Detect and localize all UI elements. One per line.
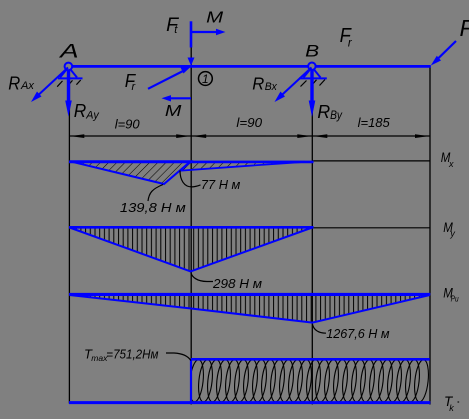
- support B pin triangle: [299, 70, 327, 79]
- svg-text:1: 1: [202, 72, 209, 86]
- svg-text:R: R: [252, 74, 264, 94]
- torque box top edge: [191, 358, 430, 361]
- svg-text:Ax: Ax: [20, 80, 35, 92]
- torque loops fill: [188, 359, 431, 403]
- svg-text:=751,2Нм: =751,2Нм: [106, 346, 158, 361]
- reaction RAx arrow: [31, 68, 68, 103]
- support B hatch ticks: [301, 80, 326, 87]
- Mres baseline (blue): [69, 293, 430, 296]
- Mx diagram right triangle, hatched: [180, 162, 305, 171]
- dot after Tk: [457, 401, 459, 403]
- svg-text:R: R: [317, 101, 330, 122]
- vertical section line at support B: [311, 79, 313, 405]
- My axis (black part right of B): [312, 227, 430, 229]
- svg-text:1267,6 Н м: 1267,6 Н м: [326, 326, 389, 341]
- Mx axis (black part right of B): [312, 160, 430, 162]
- svg-text:M: M: [206, 9, 224, 26]
- svg-text:F: F: [460, 15, 469, 41]
- support A hatch ticks: [57, 80, 80, 87]
- force Ft arrow (down onto beam at node 1): [188, 21, 195, 66]
- support A pin triangle: [58, 70, 83, 79]
- dim arrow right of B: [313, 134, 327, 138]
- Mx diagram left triangle, hatched: [70, 161, 191, 184]
- svg-text:y: y: [449, 229, 455, 239]
- dimension line: [69, 135, 430, 137]
- svg-text:R: R: [8, 74, 20, 94]
- reaction RBy arrow: [309, 70, 316, 117]
- leader for Tmax: [166, 353, 191, 361]
- svg-text:B: B: [305, 41, 319, 60]
- svg-text:l=90: l=90: [115, 117, 141, 132]
- dim arrow right of node 1: [192, 134, 206, 138]
- torque baseline (blue): [69, 401, 430, 404]
- moment M arrow (bottom, pointing left): [162, 95, 192, 101]
- torque box left edge: [190, 359, 192, 402]
- moment M arrow (top, pointing right): [191, 29, 225, 35]
- svg-text:Bx: Bx: [265, 81, 278, 93]
- svg-text:298 Н м: 298 Н м: [212, 276, 262, 291]
- node 1 circle: [199, 72, 213, 86]
- vertical section line at load point 1: [190, 47, 192, 405]
- leader for 139,8: [148, 185, 163, 202]
- support B pin circle: [308, 62, 315, 69]
- reaction RAy arrow: [65, 70, 72, 117]
- axial force F arrow (down-left onto right end): [431, 41, 456, 66]
- svg-text:Ay: Ay: [85, 109, 100, 121]
- vertical section line at support A: [68, 79, 70, 404]
- force Fr arrow (up-right onto node 1): [148, 67, 191, 89]
- svg-text:l=90: l=90: [236, 115, 262, 130]
- dim arrow left of B: [297, 134, 311, 138]
- leader for 1267,6: [312, 324, 326, 333]
- dim arrow at right end: [415, 134, 429, 138]
- svg-text:M: M: [165, 103, 182, 120]
- leader for 77: [180, 171, 201, 187]
- svg-text:R: R: [74, 101, 87, 121]
- svg-text:x: x: [448, 159, 454, 169]
- svg-text:l=185: l=185: [358, 115, 391, 130]
- support A pin circle: [65, 63, 73, 71]
- dim arrow at A: [70, 134, 84, 138]
- Mx baseline (blue): [69, 161, 314, 164]
- svg-text:139,8 Н м: 139,8 Н м: [120, 200, 186, 215]
- svg-text:k: k: [449, 403, 454, 413]
- My baseline (blue): [69, 226, 314, 229]
- leader for 298: [191, 273, 213, 282]
- Mres diagram polygon, hatched: [70, 295, 430, 323]
- reaction RBx arrow: [275, 68, 312, 103]
- svg-text:A: A: [59, 41, 79, 63]
- vertical section line at right end: [429, 66, 431, 405]
- svg-text:By: By: [330, 110, 343, 122]
- svg-text:Ри: Ри: [451, 294, 459, 304]
- My diagram triangle, hatched: [70, 228, 313, 272]
- dim arrow left of node 1: [176, 134, 190, 138]
- svg-text:77 Н м: 77 Н м: [201, 177, 240, 192]
- beam line: [66, 65, 431, 68]
